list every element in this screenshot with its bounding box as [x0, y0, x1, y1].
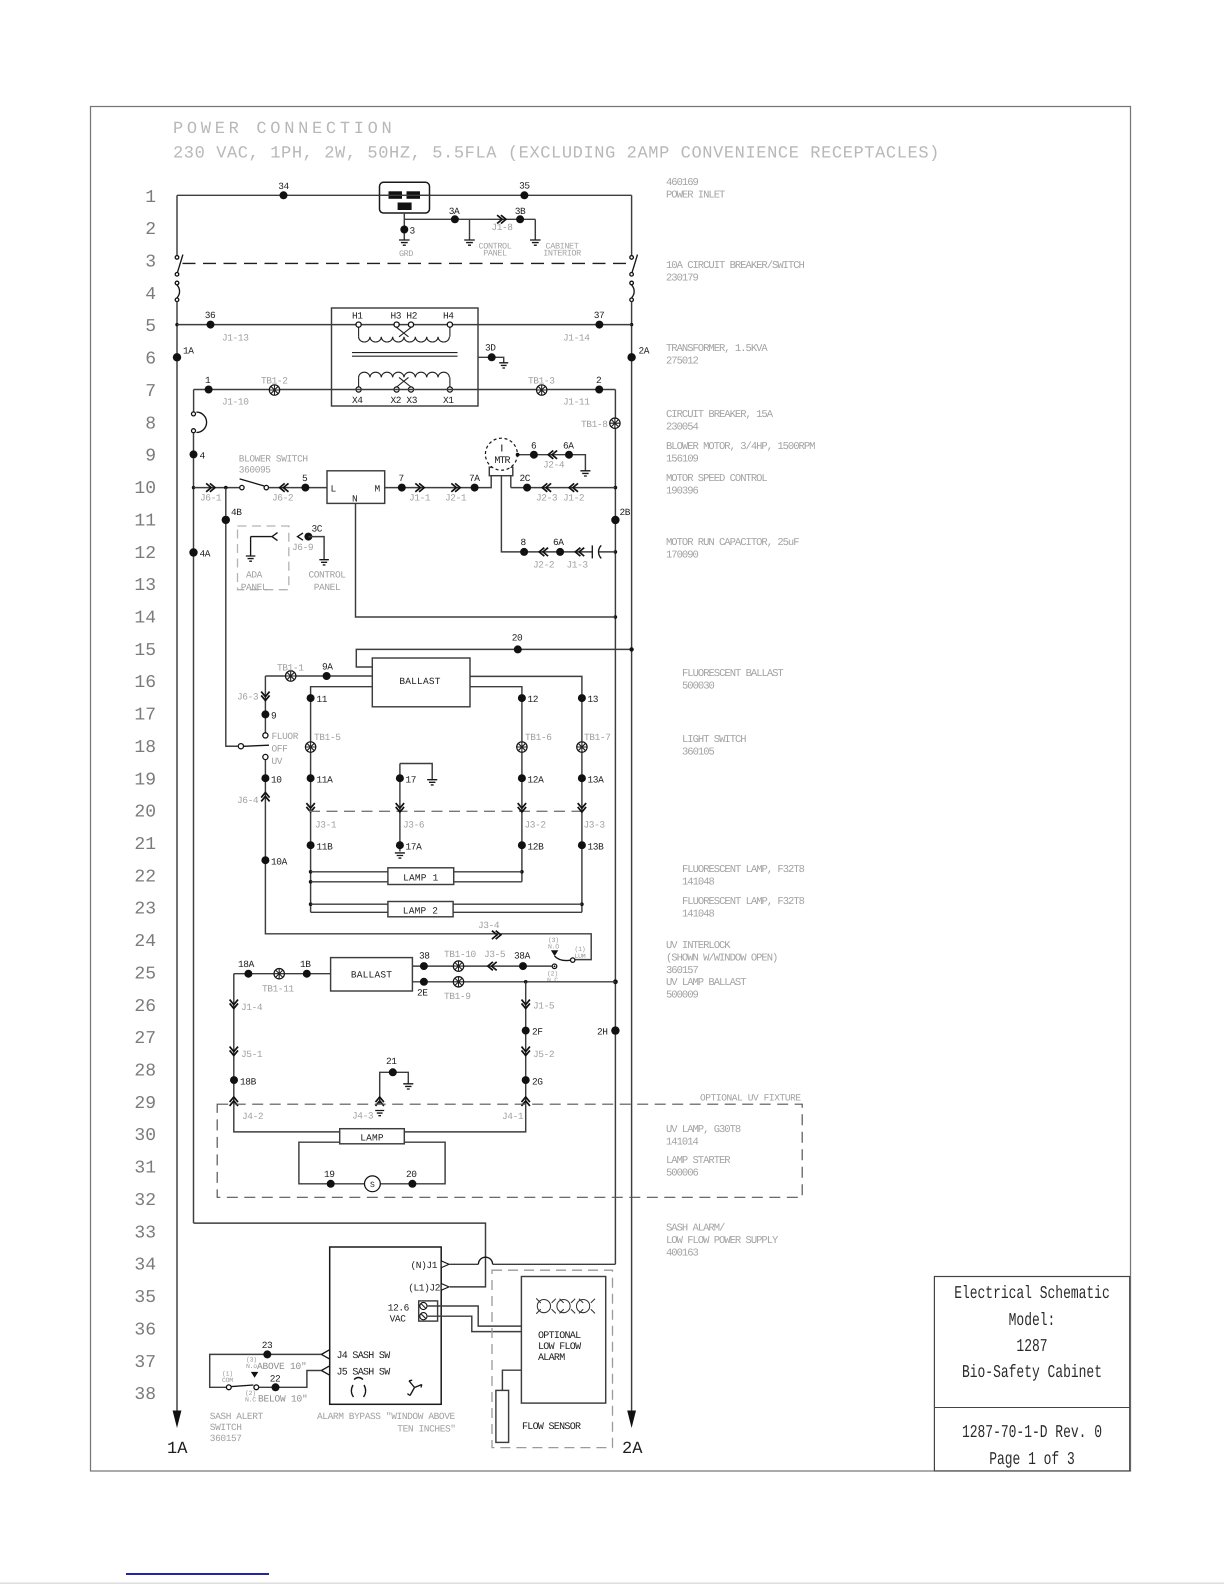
- motor run capacitor C1 170090: [592, 545, 615, 558]
- svg-text:SWITCH: SWITCH: [210, 1422, 242, 1433]
- node 4B: [222, 507, 243, 524]
- svg-text:J5-2: J5-2: [533, 1049, 555, 1060]
- connector J3-3: [578, 803, 606, 830]
- transformer terminals H1 H3 H2 H4: [352, 311, 454, 328]
- node 11A: [307, 774, 334, 785]
- junction bus A row14: [614, 615, 618, 619]
- svg-text:32: 32: [134, 1191, 156, 1211]
- node 2G: [522, 1076, 544, 1087]
- connector J5-1: [230, 1047, 263, 1060]
- ADA panel switch + ground: [246, 533, 278, 562]
- svg-text:20: 20: [512, 633, 523, 644]
- label ALARM BYPASS: [317, 1411, 456, 1435]
- svg-text:J3-4: J3-4: [478, 920, 500, 931]
- svg-text:2A: 2A: [639, 346, 650, 357]
- svg-text:400163: 400163: [666, 1247, 699, 1259]
- svg-text:N.o: N.o: [246, 1363, 257, 1370]
- node 1: [205, 375, 213, 394]
- UV lamp 141014 box: [340, 1129, 405, 1144]
- svg-text:1: 1: [205, 375, 211, 386]
- wire row7: [194, 389, 616, 391]
- terminal TB1-6: [517, 732, 553, 752]
- svg-text:37: 37: [594, 310, 605, 321]
- node 2H: [597, 1026, 620, 1037]
- label OPTIONAL LOW FLOW ALARM: [538, 1331, 581, 1364]
- svg-text:38A: 38A: [514, 951, 531, 962]
- node 2A: [627, 346, 649, 362]
- svg-text:LUM: LUM: [575, 953, 586, 960]
- svg-text:INTERIOR: INTERIOR: [543, 249, 581, 259]
- circuit breaker/switch CB1 right pole 230179: [630, 255, 638, 302]
- svg-text:PANEL: PANEL: [314, 582, 341, 593]
- svg-text:5: 5: [145, 317, 156, 337]
- svg-text:20: 20: [406, 1169, 417, 1180]
- node 20 starter: [406, 1169, 417, 1188]
- title block text: [954, 1284, 1110, 1470]
- junction bus A row12: [614, 550, 618, 554]
- svg-text:500009: 500009: [666, 989, 699, 1001]
- svg-text:9: 9: [271, 711, 277, 722]
- dashed disconnect row20: [309, 810, 582, 812]
- svg-text:12: 12: [134, 544, 156, 564]
- node 7A: [469, 473, 480, 492]
- svg-text:J6-1: J6-1: [200, 493, 222, 504]
- svg-text:190396: 190396: [666, 485, 699, 497]
- connector J4-2: [230, 1097, 264, 1122]
- sash alarm power supply U3 400163 box: [330, 1247, 442, 1404]
- node 4: [190, 450, 206, 461]
- svg-text:19: 19: [324, 1169, 335, 1180]
- ADA panel dashed box: [238, 526, 289, 590]
- svg-text:2A: 2A: [622, 1440, 643, 1459]
- connector J2-1: [445, 483, 467, 503]
- svg-text:POWER INLET: POWER INLET: [666, 189, 725, 201]
- svg-text:N.O: N.O: [548, 944, 559, 951]
- wire through inlet: [380, 194, 430, 196]
- title block box: [934, 1277, 1129, 1471]
- svg-text:MOTOR RUN CAPACITOR, 25uF: MOTOR RUN CAPACITOR, 25uF: [666, 537, 799, 549]
- connector J6-9 arrow: [292, 533, 314, 553]
- node 3D: [485, 343, 496, 362]
- node 34: [278, 181, 289, 199]
- terminal TB1-9: [444, 977, 471, 1002]
- node 3B: [515, 206, 526, 223]
- svg-text:13: 13: [588, 694, 599, 705]
- fluorescent ballast 500030 box: [372, 658, 470, 707]
- wires lamp1 leads: [311, 872, 522, 882]
- node 20: [512, 633, 523, 654]
- svg-text:TEN INCHES": TEN INCHES": [397, 1424, 455, 1435]
- svg-text:156109: 156109: [666, 453, 699, 465]
- wires lamp2 leads: [311, 904, 582, 912]
- junction right bus row5: [630, 323, 633, 326]
- wire col 11: [311, 687, 373, 913]
- svg-text:27: 27: [134, 1029, 156, 1049]
- svg-text:BALLAST: BALLAST: [399, 676, 440, 687]
- wire 3D tap: [478, 357, 504, 363]
- junction col13 lamp pin: [580, 902, 584, 906]
- svg-text:J2-4: J2-4: [543, 460, 565, 471]
- terminal TB1-7: [577, 732, 611, 752]
- wire inner column top: [193, 390, 195, 412]
- node 2F: [522, 1027, 544, 1038]
- terminal TB1-11: [262, 969, 295, 995]
- svg-text:BLOWER MOTOR, 3/4HP, 1500RPM: BLOWER MOTOR, 3/4HP, 1500RPM: [666, 441, 815, 453]
- label CONTROL PANEL 2: [308, 570, 346, 594]
- junctions col11 lamp pins: [309, 870, 313, 906]
- sash switch NO contact: [251, 1372, 258, 1378]
- wire J4 to sash switch: [210, 1354, 322, 1387]
- svg-text:J6-9: J6-9: [292, 542, 314, 553]
- svg-text:15: 15: [134, 641, 156, 661]
- wire row2: [404, 218, 535, 220]
- ground motor 6A: [580, 471, 590, 476]
- pin J5 SASH SW: [321, 1366, 390, 1379]
- svg-text:J3-1: J3-1: [315, 820, 337, 831]
- circuit breaker/switch CB1 left pole: [175, 255, 183, 302]
- UV interlock LUM contact: [571, 946, 586, 962]
- svg-text:J2-1: J2-1: [445, 493, 467, 504]
- svg-text:4: 4: [200, 451, 206, 462]
- svg-text:S: S: [370, 1181, 375, 1190]
- svg-text:J4-3: J4-3: [352, 1111, 374, 1122]
- svg-text:LAMP: LAMP: [360, 1132, 384, 1143]
- svg-text:H1: H1: [352, 311, 363, 322]
- fluorescent lamp LAMP 2 141048: [388, 902, 453, 917]
- svg-text:10: 10: [271, 775, 282, 786]
- node 18A: [238, 959, 255, 978]
- terminal block 12.6VAC: [419, 1301, 438, 1321]
- terminal TB1-10: [444, 949, 477, 971]
- wire switch to box: [269, 487, 327, 489]
- node 8: [520, 537, 528, 556]
- node 5: [301, 473, 309, 492]
- junction bus B row15: [629, 647, 633, 651]
- svg-text:J1-10: J1-10: [222, 397, 249, 408]
- svg-text:13A: 13A: [588, 775, 605, 786]
- fan icon: [407, 1380, 421, 1395]
- svg-text:H4: H4: [443, 311, 454, 322]
- svg-text:TB1-11: TB1-11: [262, 984, 295, 995]
- svg-text:POWER CONNECTION: POWER CONNECTION: [173, 120, 395, 139]
- svg-text:12A: 12A: [528, 775, 545, 786]
- node 13A: [578, 774, 604, 785]
- node 1A: [173, 346, 195, 362]
- ground 3D: [499, 363, 508, 368]
- node 19: [324, 1169, 335, 1188]
- wire J4-2 to lamp: [234, 1104, 340, 1132]
- svg-text:LOW FLOW: LOW FLOW: [538, 1342, 581, 1353]
- svg-text:500030: 500030: [682, 680, 715, 692]
- svg-text:35: 35: [134, 1288, 156, 1308]
- junction col12 lamp pin: [520, 870, 524, 874]
- node 6A: [563, 441, 574, 459]
- wire col 17 center tap: [400, 764, 437, 852]
- svg-text:N: N: [352, 494, 357, 505]
- connector J3-5: [484, 949, 506, 970]
- node 17: [396, 774, 416, 785]
- node 9A: [322, 662, 333, 681]
- svg-text:1A: 1A: [183, 346, 194, 357]
- svg-text:6A: 6A: [553, 537, 564, 548]
- svg-text:TB1-8: TB1-8: [581, 419, 608, 430]
- sash alert switch 360157 contacts: [226, 1385, 258, 1390]
- connector J3-2: [518, 803, 547, 830]
- svg-text:275012: 275012: [666, 355, 699, 367]
- fluorescent lamp LAMP 1 141048: [388, 868, 454, 885]
- label ABOVE 10in: [257, 1361, 307, 1372]
- ground cabinet interior: [530, 219, 541, 245]
- svg-text:J1-5: J1-5: [533, 1001, 555, 1012]
- svg-text:ABOVE 10": ABOVE 10": [257, 1361, 307, 1372]
- svg-text:SASH ALARM/: SASH ALARM/: [666, 1223, 725, 1235]
- svg-text:25: 25: [134, 964, 156, 984]
- svg-text:TRANSFORMER, 1.5KVA: TRANSFORMER, 1.5KVA: [666, 343, 768, 355]
- node 11: [307, 694, 328, 705]
- svg-text:10: 10: [134, 479, 156, 499]
- optional UV fixture dashed box: [217, 1104, 802, 1197]
- svg-text:OFF: OFF: [272, 744, 289, 755]
- svg-text:J5 SASH SW: J5 SASH SW: [337, 1368, 391, 1379]
- svg-text:11B: 11B: [317, 842, 334, 853]
- connector J2-2: [533, 548, 555, 571]
- svg-text:3A: 3A: [449, 206, 460, 217]
- svg-text:OPTIONAL: OPTIONAL: [538, 1331, 581, 1342]
- svg-text:Electrical Schematic: Electrical Schematic: [954, 1284, 1110, 1304]
- UV lamp ballast 500009 box: [331, 958, 413, 991]
- transformer terminals X4 X2 X3 X1: [352, 387, 454, 406]
- svg-text:Bio-Safety Cabinet: Bio-Safety Cabinet: [962, 1363, 1102, 1383]
- svg-text:ALARM BYPASS "WINDOW ABOVE: ALARM BYPASS "WINDOW ABOVE: [317, 1411, 456, 1422]
- svg-text:J1-2: J1-2: [563, 493, 585, 504]
- svg-text:20: 20: [134, 803, 156, 823]
- svg-text:1287-70-1-D Rev. 0: 1287-70-1-D Rev. 0: [962, 1423, 1102, 1443]
- svg-text:18A: 18A: [238, 959, 255, 970]
- svg-text:TB1-3: TB1-3: [528, 376, 555, 387]
- svg-text:FLUORESCENT BALLAST: FLUORESCENT BALLAST: [682, 668, 783, 680]
- svg-text:OPTIONAL UV FIXTURE: OPTIONAL UV FIXTURE: [700, 1093, 801, 1104]
- svg-text:J2-3: J2-3: [536, 493, 558, 504]
- label J1-11: [563, 397, 590, 408]
- svg-text:34: 34: [134, 1256, 156, 1276]
- svg-text:FLUORESCENT LAMP, F32T8: FLUORESCENT LAMP, F32T8: [682, 896, 805, 908]
- wire row10 right: [385, 476, 492, 488]
- svg-text:TB1-1: TB1-1: [277, 663, 304, 674]
- node 2C: [520, 473, 532, 492]
- svg-text:30: 30: [134, 1126, 156, 1146]
- node 2: [595, 375, 603, 394]
- drawing border frame: [91, 107, 1131, 1472]
- svg-text:LOW FLOW POWER SUPPLY: LOW FLOW POWER SUPPLY: [666, 1235, 779, 1247]
- wire 3C to ground: [308, 537, 328, 565]
- starter loop wires: [299, 1142, 445, 1184]
- svg-text:J3-6: J3-6: [403, 820, 425, 831]
- page bottom edge line: [0, 1582, 1224, 1584]
- svg-text:2: 2: [596, 375, 602, 386]
- wire motor right pin: [510, 476, 512, 488]
- wire 12.6VAC bottom to alarm: [427, 1316, 521, 1331]
- svg-text:16: 16: [134, 673, 156, 693]
- svg-text:29: 29: [134, 1094, 156, 1114]
- connector J4-3: [352, 1097, 384, 1122]
- UV interlock blade: [555, 956, 571, 960]
- wire row5: [177, 324, 632, 326]
- svg-text:2G: 2G: [532, 1077, 543, 1088]
- flow sensor body: [496, 1390, 509, 1442]
- transformer T1 275012 box: [332, 308, 479, 406]
- arrow 2A bottom: [622, 1411, 643, 1460]
- svg-text:2B: 2B: [620, 507, 631, 518]
- svg-text:J1-4: J1-4: [241, 1002, 263, 1013]
- svg-text:J4-2: J4-2: [242, 1111, 264, 1122]
- label CABINET INTERIOR: [543, 241, 581, 258]
- connector J6-3: [237, 692, 270, 703]
- circuit breaker CB2 15A 230054: [192, 412, 207, 433]
- svg-text:22: 22: [270, 1374, 281, 1385]
- connector J5-2: [522, 1047, 555, 1060]
- wire light switch column: [264, 676, 266, 733]
- svg-text:3D: 3D: [485, 343, 496, 354]
- svg-text:J1-14: J1-14: [563, 333, 590, 344]
- svg-text:230054: 230054: [666, 421, 699, 433]
- svg-text:N.C.: N.C.: [547, 977, 561, 984]
- node 10A: [261, 856, 287, 867]
- node 10: [261, 774, 282, 785]
- svg-text:LIGHT SWITCH: LIGHT SWITCH: [682, 734, 746, 746]
- connector J1-8: [491, 215, 513, 233]
- svg-text:PANEL: PANEL: [241, 582, 268, 593]
- connector J4-1: [502, 1097, 530, 1122]
- wire row10 left: [194, 487, 240, 489]
- wire col 12: [470, 687, 522, 882]
- svg-text:UV LAMP, G30T8: UV LAMP, G30T8: [666, 1124, 741, 1136]
- junction J1-5 tap: [524, 980, 528, 984]
- wire node 21 center tap: [380, 1072, 414, 1104]
- node 37: [594, 310, 605, 329]
- ground control panel stub: [464, 219, 475, 245]
- svg-text:J6-2: J6-2: [272, 493, 294, 504]
- node 3A: [449, 206, 460, 223]
- svg-text:7: 7: [145, 382, 156, 402]
- svg-text:UV: UV: [272, 756, 283, 767]
- svg-text:38: 38: [419, 951, 430, 962]
- connector J1-5: [522, 1000, 555, 1012]
- transformer primary winding: [359, 327, 450, 342]
- svg-text:TB1-9: TB1-9: [444, 991, 471, 1002]
- svg-text:ADA: ADA: [246, 570, 263, 581]
- node 21: [386, 1056, 397, 1076]
- transformer secondary leads: [359, 380, 450, 387]
- svg-text:BELOW 10": BELOW 10": [258, 1394, 308, 1405]
- title ratings line: [173, 145, 940, 164]
- svg-text:GRD: GRD: [399, 249, 413, 259]
- svg-text:12B: 12B: [528, 842, 545, 853]
- node 13B: [578, 841, 604, 852]
- ground GRD: [399, 240, 413, 259]
- svg-text:36: 36: [134, 1320, 156, 1340]
- connector J6-1: [200, 483, 222, 503]
- wire right bus top (row1 corner to breaker): [631, 195, 633, 255]
- svg-text:37: 37: [134, 1353, 156, 1373]
- connector J1-2: [563, 483, 585, 503]
- alarm lamps icons: [536, 1298, 595, 1313]
- connector J1-3: [567, 548, 589, 571]
- UV interlock NC contact: [547, 964, 561, 984]
- svg-text:J6-3: J6-3: [237, 692, 259, 703]
- svg-text:230 VAC, 1PH, 2W, 50HZ, 5.5FLA: 230 VAC, 1PH, 2W, 50HZ, 5.5FLA (EXCLUDIN…: [173, 145, 940, 164]
- svg-text:L: L: [331, 484, 337, 495]
- svg-text:26: 26: [134, 997, 156, 1017]
- connector J3-6: [396, 803, 425, 830]
- ladder row numbers 1-38: [134, 188, 156, 1405]
- wire motor cap column: [501, 476, 592, 552]
- svg-text:21: 21: [134, 835, 156, 855]
- wire col J1-5: [525, 982, 527, 1104]
- node 12: [518, 694, 539, 705]
- wire 2C row10: [511, 487, 616, 489]
- junction inner col row10: [192, 486, 195, 489]
- svg-text:J3-2: J3-2: [525, 820, 547, 831]
- svg-text:BLOWER SWITCH: BLOWER SWITCH: [239, 454, 308, 465]
- node 23: [262, 1340, 273, 1358]
- svg-text:X4: X4: [352, 395, 363, 406]
- svg-text:2C: 2C: [520, 473, 531, 484]
- svg-text:UV INTERLOCK: UV INTERLOCK: [666, 940, 731, 952]
- svg-text:LAMP STARTER: LAMP STARTER: [666, 1155, 731, 1167]
- wire ballast2 upper right: [412, 965, 552, 967]
- horn icon: [351, 1378, 365, 1398]
- svg-text:4A: 4A: [200, 549, 211, 560]
- svg-text:17: 17: [406, 775, 417, 786]
- label CONTROL PANEL: [479, 241, 512, 258]
- svg-text:3C: 3C: [312, 524, 323, 535]
- svg-text:MOTOR SPEED CONTROL: MOTOR SPEED CONTROL: [666, 473, 767, 485]
- node 2E: [417, 978, 428, 999]
- svg-text:1B: 1B: [300, 959, 311, 970]
- power inlet J-plug 460169: [380, 182, 430, 213]
- sash switch labels 3 NO: [246, 1357, 257, 1371]
- svg-text:BALLAST: BALLAST: [351, 969, 392, 980]
- svg-text:SASH ALERT: SASH ALERT: [210, 1411, 264, 1422]
- label SASH ALARM annotation: [666, 1223, 779, 1260]
- footer link underline: [126, 1573, 269, 1575]
- label OPTIONAL UV FIXTURE: [700, 1093, 801, 1104]
- svg-text:LAMP 1: LAMP 1: [403, 872, 439, 883]
- lamp starter S 500006: [365, 1176, 381, 1192]
- node 38: [419, 951, 430, 971]
- svg-text:J6-4: J6-4: [237, 795, 259, 806]
- svg-text:11: 11: [134, 511, 156, 531]
- blower motor M1 156109: [485, 438, 517, 476]
- svg-text:141048: 141048: [682, 908, 715, 920]
- svg-text:J5-1: J5-1: [241, 1049, 263, 1060]
- svg-text:11A: 11A: [317, 775, 334, 786]
- label J1-10: [222, 397, 249, 408]
- svg-text:141014: 141014: [666, 1136, 699, 1148]
- svg-text:4: 4: [145, 285, 156, 305]
- svg-text:FLOW SENSOR: FLOW SENSOR: [522, 1422, 581, 1433]
- pin (L1)J2: [408, 1283, 449, 1294]
- svg-text:28: 28: [134, 1062, 156, 1082]
- terminal TB1-8: [581, 418, 620, 430]
- label BELOW 10in: [258, 1394, 308, 1405]
- svg-text:23: 23: [262, 1340, 273, 1351]
- wire 4B column: [226, 488, 239, 747]
- svg-text:6A: 6A: [563, 441, 574, 452]
- svg-text:34: 34: [278, 181, 289, 192]
- junction bus A row10: [614, 486, 618, 490]
- pin J4 SASH SW: [321, 1350, 390, 1362]
